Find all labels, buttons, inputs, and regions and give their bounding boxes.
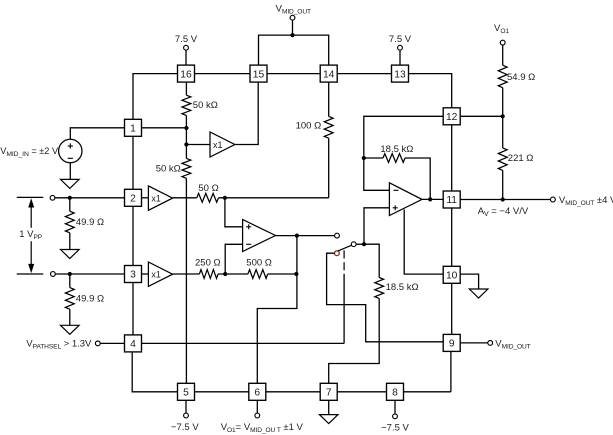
terminal input 3 — [51, 272, 56, 277]
svg-text:221 Ω: 221 Ω — [508, 153, 534, 164]
svg-text:100 Ω: 100 Ω — [296, 121, 322, 132]
wire U5 out to pin11 — [422, 198, 443, 200]
svg-text:14: 14 — [323, 69, 335, 80]
svg-text:6: 6 — [254, 388, 260, 399]
op-amp U3 — [243, 220, 276, 252]
wire 49.9 lower to ground — [69, 309, 71, 325]
wire VMID_OUT rail — [259, 35, 329, 65]
svg-text:3: 3 — [130, 270, 136, 281]
pin 2 — [125, 189, 142, 206]
wire pole to pin9 — [327, 253, 444, 342]
terminal pin6 — [255, 413, 260, 418]
pin 14 — [320, 65, 337, 82]
terminal VO1 — [500, 40, 505, 45]
resistor 49.9 Ohm upper — [65, 211, 74, 233]
wire pin16 to 50k — [185, 82, 187, 95]
wire U5 to pin10 — [404, 209, 443, 274]
wire node D to 18.5k — [364, 244, 379, 277]
wire node D to U5 plus — [364, 208, 389, 244]
wire right bus 12-11 — [451, 125, 453, 191]
node 250-500 junction — [223, 272, 227, 276]
svg-text:1: 1 — [130, 124, 136, 135]
resistor 54.9 Ohm — [498, 65, 507, 88]
Vpp tick upper — [17, 196, 44, 198]
wire pin9 to terminal — [460, 342, 488, 344]
wire switch control — [343, 274, 345, 344]
pin 7 — [320, 383, 337, 400]
pin 11 — [443, 191, 460, 208]
terminal pin8 supply — [393, 414, 398, 419]
svg-text:x1: x1 — [151, 270, 161, 280]
svg-text:x1: x1 — [151, 193, 161, 203]
svg-text:54.9 Ω: 54.9 Ω — [507, 72, 535, 83]
svg-text:18.5 kΩ: 18.5 kΩ — [386, 282, 419, 293]
wire pin15 to pin14 — [267, 73, 320, 75]
terminal VPATHSEL — [95, 341, 100, 346]
wire 18.5k upper to U5 out — [405, 158, 430, 199]
wire 100 Ohm to pin14 — [328, 82, 330, 116]
buffer U4 x1 — [148, 262, 172, 286]
svg-text:250 Ω: 250 Ω — [195, 257, 221, 268]
node input3 junction — [68, 272, 72, 276]
pin 6 — [249, 383, 266, 400]
terminal VMID_OUT top — [290, 15, 295, 20]
switch pole terminal — [335, 251, 340, 256]
wire node F to 221 — [502, 116, 504, 148]
terminal 7.5V pin13 — [398, 45, 403, 50]
svg-text:11: 11 — [446, 195, 457, 206]
wire pin10 to ground — [460, 274, 478, 289]
ground pin10 — [469, 289, 488, 298]
svg-text:18.5 kΩ: 18.5 kΩ — [380, 144, 413, 155]
svg-text:2: 2 — [130, 194, 136, 205]
svg-text:50 Ω: 50 Ω — [198, 183, 218, 194]
wire pin13 to pin12 — [409, 74, 452, 108]
node C junction — [294, 272, 298, 276]
svg-text:7.5 V: 7.5 V — [389, 34, 412, 45]
wire pin8 supply stub — [394, 400, 396, 414]
wire 50 Ohm to 100 Ohm — [219, 197, 329, 199]
wire node B to buffer U1 — [186, 144, 210, 146]
wire 250 to 500 — [218, 273, 248, 275]
node U5 out junction — [428, 197, 432, 201]
wire pin1 to source — [70, 128, 124, 140]
svg-text:7.5 V: 7.5 V — [175, 34, 198, 45]
terminal pin5 supply — [184, 413, 189, 418]
Vpp tick lower — [17, 273, 44, 275]
wire pin13 supply stub — [399, 50, 401, 65]
wire bus 5-6 — [195, 391, 249, 393]
wire node A to node B — [185, 128, 187, 145]
pin 16 — [178, 65, 195, 82]
resistor 50 Ohm — [197, 193, 219, 202]
resistor 50 kOhm lower — [182, 158, 191, 178]
resistor 18.5 kOhm lower — [375, 278, 384, 299]
wire pin12 to node E — [364, 116, 443, 158]
svg-text:−7.5 V: −7.5 V — [171, 422, 199, 433]
node B junction — [184, 142, 188, 146]
wire pin16 supply stub — [185, 50, 187, 65]
node G junction — [501, 197, 505, 201]
wire pin7 to ground — [328, 400, 330, 414]
terminal VMID_OUT pin9 — [488, 341, 493, 346]
svg-text:500 Ω: 500 Ω — [246, 257, 272, 268]
svg-text:9: 9 — [449, 339, 455, 350]
wire right bus 10-9 — [451, 283, 453, 334]
pin 4 — [125, 335, 142, 352]
wire pin11 to output — [460, 199, 550, 201]
wire pin16 to pin15 — [195, 73, 251, 75]
svg-text:50 kΩ: 50 kΩ — [156, 164, 181, 175]
ground pin7 — [319, 415, 338, 424]
svg-text:12: 12 — [446, 112, 458, 123]
wire buffer U4 out — [173, 273, 200, 275]
wire 50k lower to pin5 — [185, 178, 187, 383]
node A junction — [184, 126, 188, 130]
svg-text:49.9 Ω: 49.9 Ω — [76, 294, 104, 305]
resistor 500 Ohm — [248, 270, 268, 279]
svg-text:−7.5 V: −7.5 V — [381, 423, 409, 434]
wire pin2 to buffer U2 — [142, 197, 149, 199]
wire pin5 supply stub — [185, 400, 187, 413]
wire left pin bus 3-4 — [132, 283, 134, 335]
wire to 49.9 upper — [69, 198, 71, 211]
pin 3 — [125, 266, 142, 283]
resistor 221 Ohm — [498, 148, 507, 171]
source VMID_IN — [59, 139, 82, 162]
wire buffer U2 out — [173, 197, 197, 199]
wire 100 Ohm branch — [328, 138, 330, 198]
wire pin1 to 50k node — [142, 127, 187, 129]
wire node E to U5 minus — [364, 158, 390, 190]
svg-text:10: 10 — [446, 271, 458, 282]
pin 1 — [125, 119, 142, 136]
pin 12 — [443, 108, 460, 125]
wire VMID_OUT stub — [292, 20, 294, 35]
wire node B to 50k lower — [185, 145, 187, 159]
node U3 out junction — [295, 234, 299, 238]
resistor 18.5 kOhm upper — [383, 154, 405, 163]
wire bus 7-8 — [337, 391, 386, 393]
resistor 49.9 Ohm lower — [65, 288, 74, 310]
pin 10 — [443, 266, 460, 283]
svg-text:8: 8 — [392, 388, 398, 399]
svg-text:15: 15 — [253, 69, 265, 80]
ground source — [61, 179, 80, 188]
wire to U3 plus input — [225, 198, 243, 227]
terminal input 2 — [50, 195, 55, 200]
svg-text:50 kΩ: 50 kΩ — [193, 100, 218, 111]
wire source to ground — [69, 163, 71, 180]
pin 13 — [392, 65, 409, 82]
svg-text:x1: x1 — [213, 140, 223, 150]
wire pin14 to pin13 — [337, 73, 391, 75]
buffer U2 x1 — [148, 186, 172, 210]
wire bus 8-9 — [404, 391, 451, 393]
node 50 Ohm junction — [223, 196, 227, 200]
wire bus 6-7 — [266, 391, 320, 393]
wire node C to pin6 — [257, 236, 297, 384]
wire U3 out to switch — [276, 235, 335, 237]
svg-text:49.9 Ω: 49.9 Ω — [76, 217, 104, 228]
wire 49.9 upper to ground — [69, 233, 71, 250]
resistor 250 Ohm — [199, 270, 218, 279]
wire 54.9 to node F — [502, 88, 504, 117]
switch contact terminal — [335, 233, 340, 238]
wire to 49.9 lower — [69, 274, 71, 288]
wire pin6 stub — [256, 400, 258, 413]
resistor 100 Ohm — [324, 116, 333, 138]
terminal VMID_OUT out — [551, 197, 556, 202]
svg-text:5: 5 — [183, 388, 189, 399]
wire pin4 to bottom bus — [132, 352, 177, 392]
pin 8 — [387, 383, 404, 400]
wire pin12 to node F — [460, 115, 503, 117]
node F junction — [501, 114, 505, 118]
wire VO1 to 54.9 — [502, 45, 504, 65]
svg-text:16: 16 — [180, 69, 192, 80]
wire pivot to node D — [356, 243, 364, 245]
svg-text:4: 4 — [130, 339, 136, 350]
wire pin16 to pin1 — [133, 74, 178, 120]
ground input3 — [61, 325, 80, 334]
switch blade — [338, 245, 352, 251]
wire pin9 to bottom bus — [450, 351, 452, 391]
node VMID_OUT junction — [290, 33, 294, 37]
wire 500 Ohm to node C — [268, 273, 297, 275]
wire input3 to pin3 — [55, 273, 124, 275]
wire pin3 to buffer U4 — [142, 273, 149, 275]
buffer U1 x1 — [210, 132, 235, 157]
wire U3 minus input — [225, 244, 242, 274]
Vpp arrow — [28, 198, 34, 273]
switch pivot terminal — [351, 242, 356, 247]
node input2 junction — [68, 196, 72, 200]
resistor 50 kOhm upper — [182, 95, 191, 115]
node E junction — [362, 156, 366, 160]
node D junction — [362, 242, 366, 246]
wire input2 to pin2 — [55, 197, 125, 199]
pin 9 — [443, 334, 460, 351]
wire 50k to node A — [185, 115, 187, 128]
wire node E to 18.5k upper — [364, 157, 383, 159]
switch control dashed — [343, 250, 345, 270]
wire 221 to node G — [502, 170, 504, 199]
wire left pin bus 1-2 — [132, 136, 134, 189]
pin 5 — [178, 383, 195, 400]
wire pin4 to switch — [142, 342, 345, 344]
ground input2 — [61, 250, 80, 259]
terminal 7.5V pin16 — [184, 45, 189, 50]
svg-text:13: 13 — [394, 69, 406, 80]
wire left pin bus 2-3 — [132, 206, 134, 265]
wire buffer U1 out to pin15 — [235, 82, 258, 144]
wire VPATHSEL to pin4 — [100, 342, 124, 344]
pin 15 — [250, 65, 267, 82]
svg-text:7: 7 — [326, 388, 332, 399]
wire 18.5k to pin7 — [329, 298, 380, 383]
op-amp U5 — [389, 183, 422, 216]
wire right bus 11-10 — [451, 208, 453, 266]
